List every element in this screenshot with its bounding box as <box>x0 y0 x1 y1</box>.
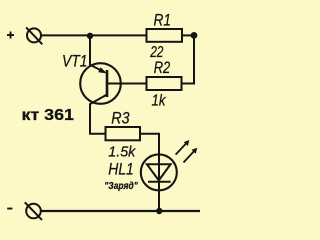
emission arrow 2 <box>184 151 195 163</box>
wire: R3 right to LED anode <box>140 134 159 155</box>
terminal X2 (-) <box>25 202 42 220</box>
svg-text:кт 361: кт 361 <box>22 107 75 124</box>
node C (junction dot on bottom rail) <box>156 208 162 214</box>
wire: R2 to base <box>107 83 147 85</box>
svg-text:1k: 1k <box>152 93 167 110</box>
emitter with arrow into base <box>90 65 105 72</box>
wire: node B down and left to R2 <box>182 35 195 83</box>
wire: bottom rail <box>41 210 201 212</box>
anode-cathode line through <box>158 154 160 211</box>
plus sign <box>7 32 14 39</box>
svg-text:1.5k: 1.5k <box>108 144 136 161</box>
terminal X1 (+) <box>26 27 42 44</box>
svg-text:R2: R2 <box>154 58 171 77</box>
svg-text:HL1: HL1 <box>108 161 134 179</box>
cathode bar <box>148 181 171 183</box>
transistor VT1 (PNP) <box>80 63 121 104</box>
node B (junction dot) <box>191 32 198 39</box>
LED HL1 <box>141 140 197 211</box>
wire: R1 to node B <box>182 34 194 36</box>
triangle <box>147 164 171 180</box>
node A (junction dot at emitter tap) <box>87 33 93 39</box>
resistor R1 <box>147 29 183 42</box>
resistor R3 <box>106 127 141 140</box>
svg-text:R1: R1 <box>154 11 172 30</box>
wire: collector down to R3 <box>90 104 106 134</box>
wire: node A down to emitter <box>89 36 91 66</box>
svg-text:R3: R3 <box>111 110 130 128</box>
svg-text:VT1: VT1 <box>62 53 88 71</box>
resistor R2 <box>147 77 182 90</box>
emission arrow 1 <box>176 143 187 154</box>
collector <box>90 95 107 105</box>
svg-text:"Заряд": "Заряд" <box>104 181 138 192</box>
wire: + terminal to R1 <box>41 34 147 36</box>
minus sign <box>7 208 12 210</box>
